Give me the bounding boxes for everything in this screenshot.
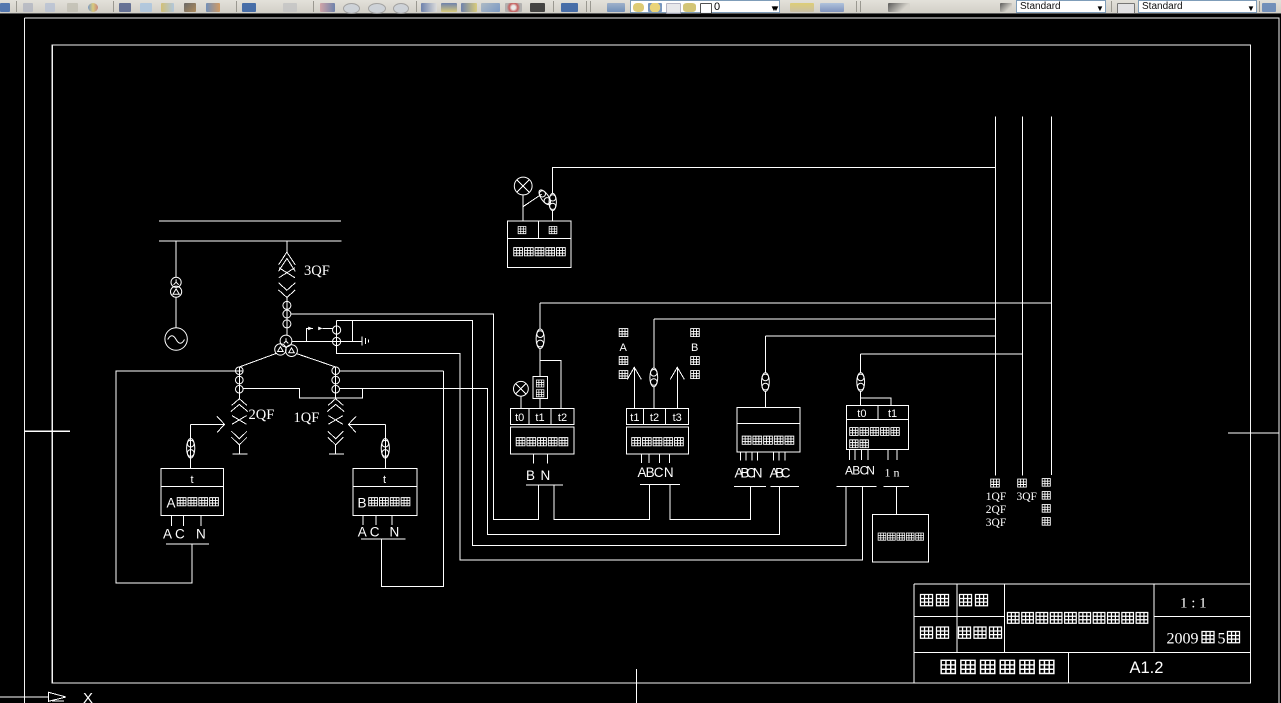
svg-text:t0: t0 xyxy=(515,412,524,424)
svg-text:B: B xyxy=(358,496,367,511)
svg-text:t2: t2 xyxy=(650,412,659,424)
svg-text:N: N xyxy=(390,525,400,540)
svg-text:1 n: 1 n xyxy=(885,466,900,480)
svg-text:A: A xyxy=(167,496,176,511)
svg-text:1QF: 1QF xyxy=(294,410,320,426)
svg-text:A1.2: A1.2 xyxy=(1130,659,1164,677)
svg-text:N: N xyxy=(866,464,875,478)
svg-text:N: N xyxy=(541,468,551,483)
svg-text:3QF: 3QF xyxy=(1017,491,1037,503)
svg-text:t0: t0 xyxy=(857,408,866,420)
svg-text:t2: t2 xyxy=(558,412,567,424)
svg-text:2QF: 2QF xyxy=(249,407,275,423)
svg-text:X: X xyxy=(83,690,93,703)
svg-text:2QF: 2QF xyxy=(986,504,1006,516)
svg-text:t1: t1 xyxy=(630,412,639,424)
svg-text:A C: A C xyxy=(163,527,185,542)
svg-text:5: 5 xyxy=(1218,631,1226,648)
svg-text:B: B xyxy=(691,342,698,354)
svg-text:t1: t1 xyxy=(535,412,544,424)
svg-text:t1: t1 xyxy=(888,408,897,420)
svg-text:t3: t3 xyxy=(673,412,682,424)
svg-text:B: B xyxy=(526,468,535,483)
svg-text:t: t xyxy=(383,474,386,486)
svg-text:3QF: 3QF xyxy=(304,263,330,279)
svg-text:1QF: 1QF xyxy=(986,491,1006,503)
svg-text:N: N xyxy=(664,465,674,480)
svg-text:ABC: ABC xyxy=(638,465,664,480)
svg-text:A: A xyxy=(620,342,628,354)
svg-text:N: N xyxy=(196,527,206,542)
svg-text:2009: 2009 xyxy=(1167,631,1199,648)
svg-text:A C: A C xyxy=(358,525,380,540)
svg-text:3QF: 3QF xyxy=(986,517,1006,529)
svg-text:1 : 1: 1 : 1 xyxy=(1180,596,1207,612)
svg-text:ABC: ABC xyxy=(770,466,791,481)
svg-text:t: t xyxy=(190,474,193,486)
svg-text:ABCN: ABCN xyxy=(735,466,763,481)
